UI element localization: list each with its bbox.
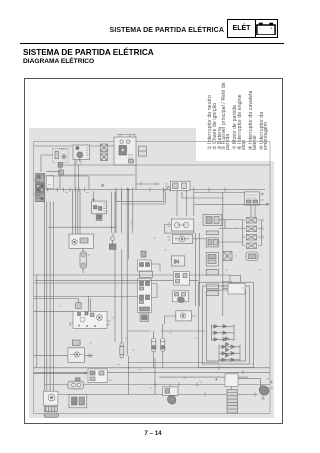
page number [0, 430, 306, 437]
bloco de diodos (cluster B) [219, 345, 240, 362]
interruptor do farol (component box) [73, 145, 90, 165]
wire: middle band horizontals [34, 275, 231, 368]
wiring diagram svg [29, 128, 274, 418]
wire: loop below tile C box [163, 186, 222, 316]
diodo da embreagem (box) [171, 256, 185, 266]
wire: top right long [58, 164, 270, 166]
conector topo coluna central [203, 214, 222, 225]
conectores pequenos direita [223, 251, 232, 288]
outer figure box [24, 78, 283, 424]
coluna central conectores [206, 231, 218, 295]
interruptor de partida (small switch) [109, 233, 116, 250]
conector duplo esquerdo do guidao [101, 144, 108, 161]
resistor listrado (striped component) [227, 390, 238, 414]
header tab box [227, 19, 278, 38]
rele de partida principal (box with terminals) [70, 311, 111, 328]
bloco de diodos (cluster A) [212, 324, 235, 341]
wire: upper mid horizontals [60, 175, 160, 186]
caixas nested direita (routing) [199, 275, 254, 367]
fusiveis verticais inferiores [120, 343, 124, 358]
conector abaixo da junção [140, 314, 149, 322]
conector pequeno direita do comutador [138, 146, 146, 156]
wire: loop under keyswitch [165, 190, 194, 234]
gray scanned diagram area [29, 128, 274, 418]
white legend cutout [196, 128, 274, 161]
wire: drop from engine stop to bus [59, 167, 61, 189]
wire: verticals center down [116, 192, 133, 356]
coluna conectores extrema direita [243, 218, 264, 261]
wire: center loop horizontals [116, 202, 166, 204]
wire: leads into junction box [34, 283, 158, 298]
chave de ignicao (main switch box) [114, 137, 136, 165]
bateria (box with label) [194, 190, 260, 206]
conector da embreagem (white box) [174, 272, 190, 286]
engine stop switch contact [55, 149, 66, 175]
conector principal esquerdo (block) [34, 174, 45, 202]
bus pin ticks [48, 188, 225, 192]
wire: horizontals mid right [128, 330, 205, 332]
page subtitle [23, 58, 94, 65]
wire: long arrow to right edge [194, 203, 269, 206]
wire: top link over ignition switch [117, 135, 135, 138]
bloco diodos 2 [226, 337, 230, 357]
rele de partida (upper box) [138, 260, 161, 278]
junção de fios (lower box) [138, 279, 152, 313]
wire: long horizontals bottom [34, 356, 271, 395]
wire: bottom right links [232, 379, 261, 397]
fusivel principal (vertical fuse) [80, 248, 90, 273]
wire: ticks right of battery [261, 193, 265, 201]
interruptor de partida botao (circle symbol) [168, 235, 193, 244]
wire: from starter button right [193, 238, 207, 240]
caixa branca pequena direita [225, 374, 238, 387]
rele intermitente (box with coil) [69, 234, 93, 248]
wire: long left verticals to motor [45, 202, 54, 392]
conector acima do rele principal [76, 303, 82, 309]
conector pequeno acima neutro [72, 340, 80, 346]
main bus wire [46, 189, 265, 191]
wire: into rele principal [34, 296, 91, 312]
wire: neutral switch leads [34, 354, 94, 358]
wire color labels (tiny marks) [48, 185, 262, 389]
conector central (block) [92, 192, 107, 221]
battery icon [256, 22, 276, 36]
diodo do cavalete (capsula 1) [152, 331, 156, 368]
wire: verticals left group down to relay [73, 190, 81, 235]
caixa branca direita do conector [46, 175, 53, 188]
wire: bottom tick marks [179, 366, 243, 397]
wire: right verticals down to nested box [196, 243, 200, 306]
interruptor da embreagem (box + blob + switch) [172, 291, 191, 321]
wire: bateria down to conectores [243, 205, 262, 246]
header running title [0, 27, 224, 34]
page title [23, 48, 154, 57]
massa do motor (blob right) [259, 379, 273, 399]
header rule [20, 43, 284, 44]
interruptor do neutro [68, 348, 85, 363]
chave de ignicao contatos (box two circles) [168, 219, 194, 231]
diodo do cavalete (capsula 2) [161, 324, 165, 368]
conector acima da juncao [141, 251, 146, 257]
retificador (small box + blob) [163, 385, 179, 405]
caixa dupla conector (tile C) [165, 181, 190, 190]
junction dot on bus [127, 189, 129, 191]
wire: left loop to frame [41, 155, 53, 172]
wire: verticals to lower switch [112, 192, 122, 343]
wire: upper-left long horizontal [34, 145, 115, 147]
bobina de ignicao (rounded) [68, 378, 84, 389]
junction dots bottom [85, 367, 217, 385]
wire: drop from farol switch [75, 160, 79, 190]
wire: verticals below keyswitch [196, 233, 200, 243]
wire: ligacoes coluna central-direita [219, 220, 243, 243]
diagram frame [34, 142, 271, 414]
wire: verticals into tall junction box [128, 165, 136, 259]
wire: through embreagem switch [165, 316, 197, 324]
wire: horizontal tile D long [48, 226, 116, 228]
bateria inferior (box) [69, 395, 87, 408]
wire: from left block to bus [47, 172, 89, 190]
caixa branca CDI [88, 369, 107, 382]
wire: horizontal mid low [128, 363, 248, 378]
motor de partida (bottom left assembly) [43, 391, 58, 417]
interruptor de engine stop (housing, faint) [53, 148, 68, 162]
